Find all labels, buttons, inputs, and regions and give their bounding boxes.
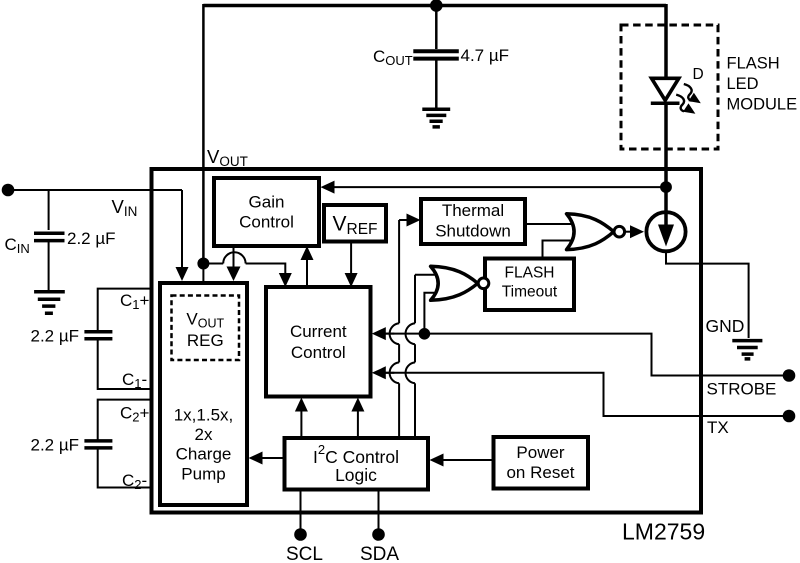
- wire COUT top connection: [435, 6, 438, 50]
- svg-text:Thermal: Thermal: [442, 201, 504, 220]
- block current control: [266, 287, 371, 397]
- wire hop to current control corner: [246, 264, 286, 274]
- wire thermal shutdown to NOR2: [525, 223, 575, 225]
- wire current control up to gain control: [306, 260, 308, 287]
- arrow into charge pump right: [249, 452, 263, 465]
- wire I2C to current control left: [300, 412, 302, 439]
- ground for GND pin: [732, 341, 762, 359]
- hop arc vertical wire2 over TX: [406, 362, 415, 383]
- terminal SCL: [294, 528, 307, 541]
- wire feedback to gain control: [334, 186, 666, 188]
- svg-text:Gain: Gain: [249, 193, 285, 212]
- svg-text:FLASH: FLASH: [727, 55, 780, 73]
- svg-text:LED: LED: [727, 75, 759, 93]
- wire VOUT left drop to junction: [202, 4, 205, 264]
- wire C1-: [98, 340, 153, 389]
- gate NOR1 (flash timeout input): [431, 266, 489, 300]
- capacitor CIN plates: [34, 233, 65, 240]
- wire VIN input: [8, 189, 182, 191]
- ground for CIN: [34, 292, 65, 314]
- wire TX to pin: [386, 373, 785, 416]
- arrow into current control top left: [279, 273, 292, 287]
- svg-text:2.2 µF: 2.2 µF: [31, 436, 80, 455]
- svg-text:Logic: Logic: [335, 465, 377, 485]
- svg-text:D: D: [693, 66, 704, 83]
- block VOUT REG dashed: [172, 296, 240, 361]
- svg-text:GND: GND: [706, 316, 745, 336]
- svg-text:1x,1.5x,: 1x,1.5x,: [174, 406, 234, 425]
- wire STROBE into current control: [386, 333, 395, 335]
- junction dot LED feedback: [660, 181, 672, 193]
- terminal SDA: [372, 528, 385, 541]
- capacitor COUT plates: [413, 51, 459, 58]
- wire SDA: [378, 490, 380, 530]
- svg-text:2.2 µF: 2.2 µF: [67, 229, 116, 248]
- hop arc vertical wire2 over STROBE: [406, 323, 415, 344]
- wire CIN to ground: [48, 242, 50, 290]
- wire NOR2 output: [625, 231, 631, 233]
- wire to thermal shutdown: [399, 219, 407, 221]
- wire NOR1 upper input: [415, 275, 440, 324]
- wire NOR1 lower input: [424, 293, 440, 334]
- svg-text:Timeout: Timeout: [502, 283, 558, 300]
- wire gain control down to charge pump: [233, 246, 235, 268]
- block I2C control logic: [285, 438, 429, 490]
- wire SCL: [300, 490, 302, 530]
- block gain control: [214, 178, 319, 246]
- wire STROBE to pin: [386, 334, 785, 376]
- arrow STROBE into current control: [372, 327, 386, 340]
- wire VREF down to current control: [350, 243, 352, 274]
- terminal STROBE: [783, 369, 796, 382]
- svg-text:LM2759: LM2759: [622, 519, 705, 545]
- capacitor C1 plates: [84, 332, 112, 339]
- wire C2+: [98, 400, 153, 440]
- junction dot COUT: [430, 0, 443, 12]
- hop arc vertical wire1 over TX: [390, 362, 399, 383]
- wire I2C to current control right: [357, 412, 359, 439]
- block thermal shutdown: [421, 199, 525, 244]
- hop arc vertical wire1 over STROBE: [390, 323, 399, 344]
- svg-text:TX: TX: [707, 418, 729, 437]
- arrow into gain control right: [321, 181, 335, 194]
- diode D triangle: [652, 78, 679, 100]
- wire VIN down into charge pump: [181, 190, 183, 268]
- arrow into I2C right: [430, 454, 444, 467]
- hop arc over gain wire: [223, 252, 245, 263]
- arrow I2C into current control right: [351, 398, 364, 412]
- arrow NOR2 into current source: [630, 225, 644, 238]
- current source circle: [646, 212, 685, 251]
- svg-text:Control: Control: [239, 213, 294, 232]
- capacitor C2 plates: [84, 441, 112, 448]
- svg-text:SCL: SCL: [286, 544, 323, 563]
- wire inside current source: [664, 213, 668, 227]
- arrow into thermal shutdown: [407, 214, 421, 227]
- arrow VIN into charge pump: [176, 267, 189, 281]
- wire power on reset to I2C: [443, 459, 494, 461]
- junction dot VOUT: [197, 258, 209, 270]
- ground for COUT: [422, 109, 450, 127]
- arrow into gain control bottom: [301, 246, 314, 260]
- wire CIN drop: [48, 190, 50, 230]
- wire LED cathode down to current source: [664, 102, 668, 213]
- svg-text:4.7 µF: 4.7 µF: [461, 46, 510, 65]
- svg-text:Current: Current: [290, 322, 347, 341]
- LED light arrow 2: [676, 95, 684, 112]
- svg-text:Pump: Pump: [181, 465, 225, 484]
- junction dot STROBE net: [419, 328, 431, 340]
- wire LED anode drop: [664, 4, 668, 79]
- arrow gain into charge pump: [227, 267, 241, 282]
- diode D cathode bar: [651, 101, 680, 105]
- wire C2-: [98, 450, 153, 488]
- wire VOUT top rail: [203, 4, 666, 8]
- arrow VREF into current control: [345, 273, 358, 287]
- svg-text:Power: Power: [516, 443, 565, 462]
- wire VOUT junction to current control with hop: [203, 263, 223, 265]
- block flash timeout: [485, 259, 574, 311]
- svg-text:on Reset: on Reset: [506, 463, 574, 482]
- svg-text:2x: 2x: [195, 425, 213, 444]
- wire current source to GND: [666, 251, 749, 338]
- block charge pump 1x 1.5x 2x: [160, 283, 247, 505]
- wire COUT to ground: [435, 61, 438, 109]
- wire C1+: [98, 289, 153, 330]
- arrow I2C into current control left: [295, 398, 308, 412]
- svg-text:Shutdown: Shutdown: [435, 222, 511, 241]
- block VREF: [324, 205, 386, 242]
- wire flash timeout to NOR2: [543, 241, 575, 259]
- wire I2C to charge pump: [263, 457, 285, 459]
- arrow inside current source: [658, 225, 674, 247]
- svg-text:SDA: SDA: [360, 544, 399, 563]
- svg-text:Charge: Charge: [176, 445, 232, 464]
- main IC boundary box LM2759: [152, 169, 702, 513]
- terminal TX: [783, 410, 796, 423]
- wire VOUT junction down into charge pump: [202, 264, 204, 284]
- arrow TX into current control: [372, 366, 386, 379]
- LED module dashed box: [621, 25, 718, 149]
- svg-text:STROBE: STROBE: [707, 380, 777, 399]
- svg-text:2.2 µF: 2.2 µF: [31, 327, 80, 346]
- svg-text:MODULE: MODULE: [727, 96, 798, 114]
- wire TX into current control: [386, 372, 395, 374]
- LED light arrow 1: [684, 84, 692, 101]
- svg-text:Control: Control: [291, 343, 346, 362]
- terminal VIN: [2, 184, 15, 197]
- svg-text:FLASH: FLASH: [505, 264, 555, 281]
- block power on reset: [494, 437, 589, 489]
- gate NOR2 (to current source): [567, 214, 625, 250]
- svg-text:REG: REG: [187, 331, 224, 350]
